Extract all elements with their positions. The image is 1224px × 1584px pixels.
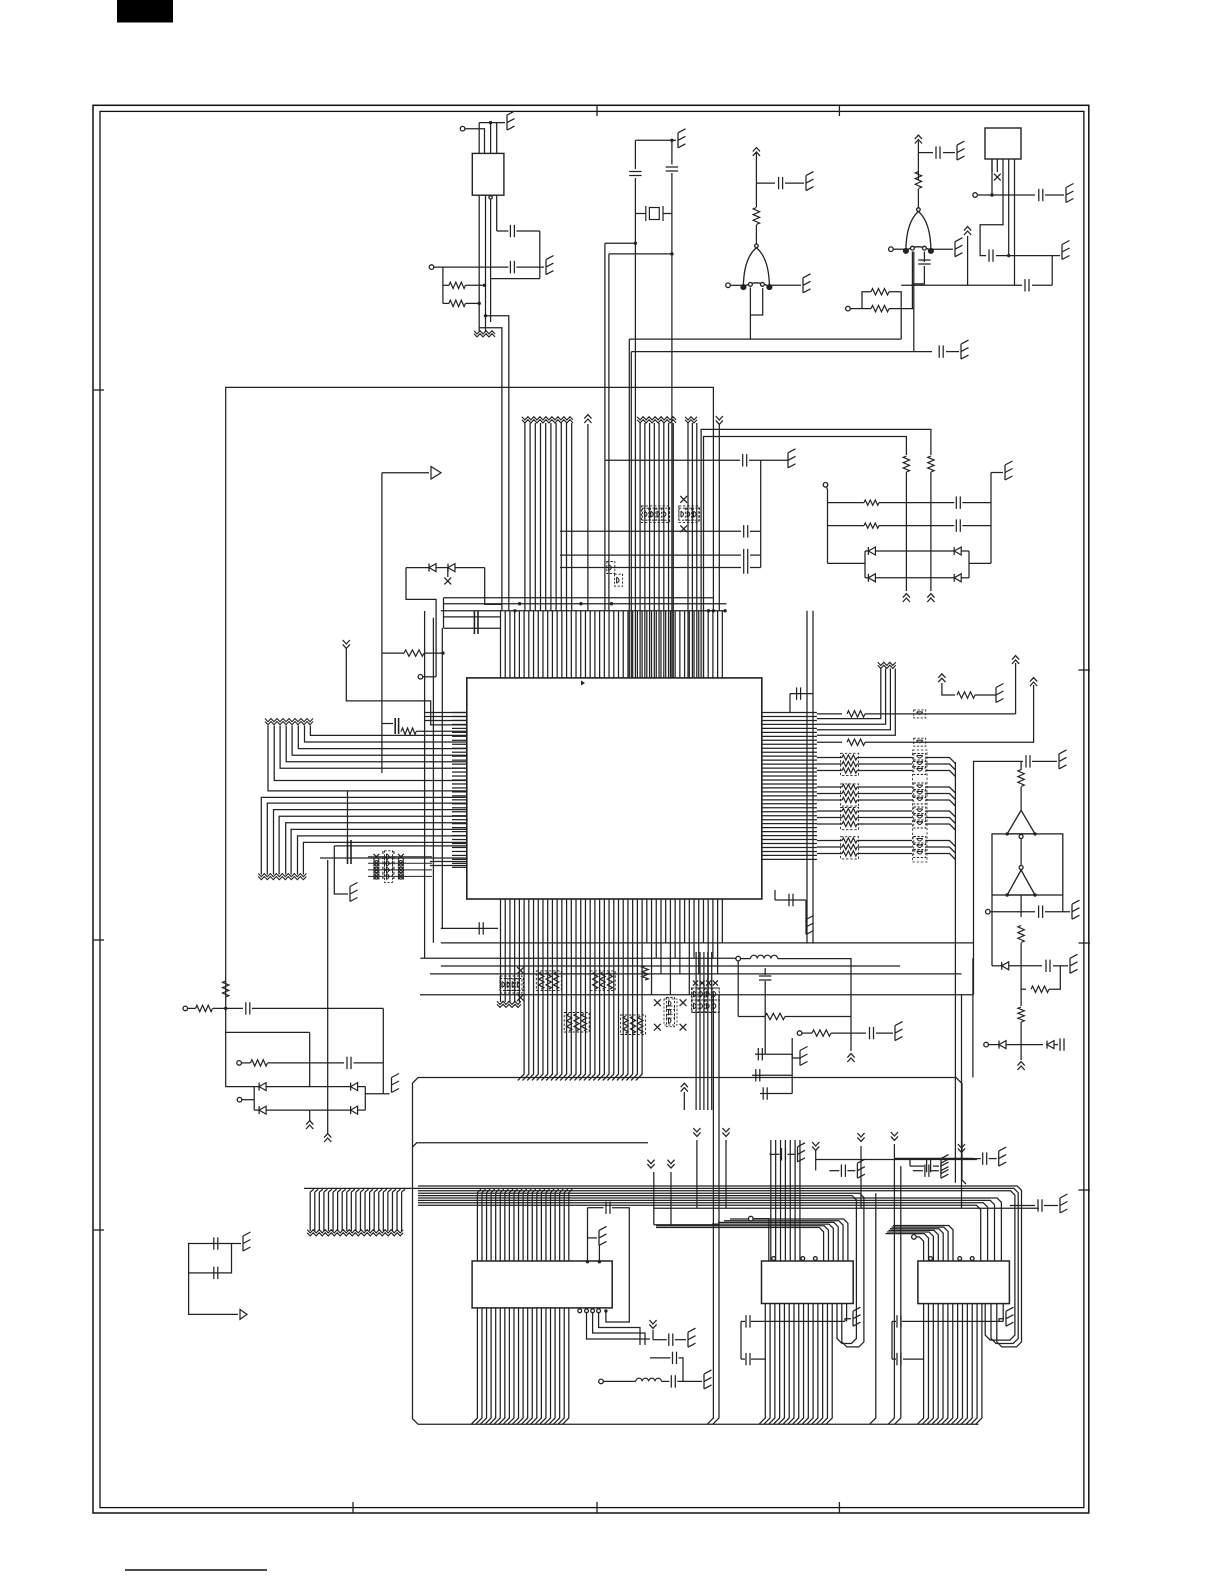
frame tick right (1079, 942, 1091, 944)
wire (226, 998, 310, 1033)
wire (857, 846, 912, 848)
U2 top pin (477, 1189, 481, 1261)
capacitor (841, 1165, 845, 1177)
capacitor (925, 1165, 929, 1177)
bead array box (679, 506, 699, 523)
wire (765, 1038, 792, 1054)
wire (718, 424, 720, 611)
U1 left pin 3 (452, 719, 467, 721)
wire (931, 248, 953, 250)
capacitor (1039, 189, 1043, 201)
bead column box (913, 750, 928, 862)
wire (266, 1086, 351, 1088)
U2 top pin (551, 1189, 555, 1261)
U2 top pin (528, 1189, 532, 1261)
U3 top pin wire (730, 1219, 848, 1261)
bus line 2 (691, 423, 693, 678)
X mark (398, 854, 404, 860)
terminal (912, 1235, 917, 1240)
U1 right pin 25 (762, 807, 817, 809)
wire (828, 562, 866, 564)
U1 top pin 18 (580, 611, 582, 678)
wire (672, 139, 676, 141)
wire (857, 799, 912, 801)
resistor (642, 966, 648, 980)
U1 top pin 25 (613, 611, 615, 678)
U1 top pin 17 (575, 611, 577, 678)
wire (930, 472, 932, 591)
supply arrow down (667, 1160, 674, 1168)
bus line 5 (545, 423, 547, 611)
U1 top pin 26 (618, 611, 620, 678)
supply arrow down (812, 1142, 819, 1150)
U2 top pin (496, 1189, 500, 1261)
resistor (812, 1030, 831, 1036)
wire (961, 550, 969, 552)
wire (763, 1074, 792, 1076)
bus wire (860, 1146, 862, 1208)
U3 bottom pin (821, 1304, 827, 1425)
U1 bottom pin 45 (707, 899, 709, 995)
ground (961, 340, 969, 359)
U1 left pin 39 (452, 862, 467, 864)
U2 bottom pin (521, 1308, 527, 1424)
no-connect X (517, 967, 524, 974)
U3 top pin wire (718, 1222, 838, 1261)
U1 right pin 23 (762, 799, 817, 801)
X mark (374, 854, 380, 860)
wire from gate bus (630, 352, 632, 678)
supply arrow down (857, 1133, 864, 1141)
bus line (699, 952, 701, 1110)
wire (268, 1062, 344, 1064)
wire (828, 502, 865, 504)
wire (241, 1062, 250, 1064)
wire (817, 817, 842, 819)
bus wire (444, 627, 501, 629)
U1 bottom pin 26 (612, 899, 618, 1080)
U1 top pin 13 (556, 611, 558, 678)
wire (755, 1053, 765, 1055)
wire (1032, 284, 1052, 286)
capacitor (797, 687, 801, 699)
bus continuation marks (878, 662, 896, 668)
array resistor (546, 972, 551, 989)
wire (606, 1208, 629, 1322)
wire (817, 669, 895, 736)
wire (788, 1153, 796, 1155)
wire (817, 846, 842, 848)
no-connect X (693, 980, 698, 985)
capacitor (744, 549, 748, 561)
wire (817, 741, 842, 743)
bus line (401, 1192, 403, 1231)
junction (489, 121, 492, 124)
wire (598, 1245, 600, 1261)
capacitor (789, 894, 793, 906)
U4 top pin wire (886, 1234, 929, 1261)
U1 left pin 4 (452, 723, 467, 725)
supply arrow down (958, 1144, 965, 1152)
wire (817, 823, 842, 825)
U1 top pin 7 (528, 611, 530, 678)
bead array box (500, 976, 522, 993)
wire (358, 1109, 366, 1111)
wire (496, 123, 498, 154)
terminal J1 (460, 126, 465, 131)
U1 left pin wire (279, 816, 467, 874)
terminal (237, 1097, 242, 1102)
wire (980, 172, 1003, 256)
U2 top pin (532, 1189, 536, 1261)
wire (333, 1189, 337, 1192)
wire (1020, 761, 1022, 770)
resistor (765, 1013, 785, 1019)
U1 top pin 16 (570, 611, 572, 678)
wire (991, 912, 993, 966)
bus line (364, 1192, 366, 1231)
supply arrow down (716, 416, 723, 424)
U1 right pin 16 (762, 771, 817, 773)
wire (785, 182, 804, 184)
capacitor (214, 1267, 218, 1279)
wire (671, 173, 673, 678)
wire (1015, 663, 1017, 714)
no-connect X (654, 1024, 661, 1031)
no-connect X (680, 999, 687, 1006)
wire (751, 1358, 765, 1360)
bus line (355, 1192, 357, 1231)
wire (351, 1189, 355, 1192)
wire (368, 869, 432, 871)
U2 top pin (546, 1189, 550, 1261)
U1 bottom pin 38 (674, 899, 676, 958)
ferrite bead (385, 864, 393, 876)
X mark (374, 874, 379, 879)
resistor (871, 305, 889, 311)
wire (792, 1054, 800, 1058)
U2 bottom pin (508, 1308, 514, 1424)
U1 bottom pin 3 (509, 899, 511, 1002)
resistor (928, 456, 934, 472)
wire (917, 189, 919, 209)
bead array box (641, 506, 669, 523)
ground (957, 141, 965, 160)
U1 top pin 21 (594, 611, 596, 678)
U2 bottom pin (499, 1308, 505, 1424)
wire (587, 1208, 589, 1262)
ferrite bead (385, 870, 393, 882)
U1 left pin stub (430, 861, 467, 863)
wire (587, 1313, 651, 1339)
wire (406, 567, 429, 569)
resistor (404, 650, 424, 656)
wire (805, 900, 807, 922)
wire (817, 810, 842, 812)
U3 top pin (784, 1140, 786, 1261)
junction (1033, 893, 1036, 896)
wire (876, 1032, 893, 1034)
filter T1 (472, 153, 504, 195)
X mark (398, 874, 403, 879)
ferrite bead (711, 988, 719, 1000)
U1 right pin 35 (762, 846, 817, 848)
wire (354, 1062, 384, 1064)
wire (879, 525, 954, 527)
U1 top pin 39 (679, 611, 681, 678)
U1 left pin 21 (452, 791, 467, 793)
supply arrow down (693, 1128, 700, 1136)
U1 left pin 3 (425, 720, 467, 722)
ground (798, 1143, 806, 1162)
resistor (903, 456, 909, 472)
U4 bottom pin (961, 1304, 967, 1425)
bus wire (420, 957, 736, 959)
U1 bottom pin 39 (679, 899, 681, 974)
wire (910, 1165, 924, 1167)
buffer symbol (431, 467, 441, 480)
ferrite bead (914, 850, 926, 858)
wire (755, 183, 757, 207)
bus line (695, 952, 697, 1110)
U1 bottom pin 48 (721, 899, 723, 943)
ferrite bead (914, 814, 926, 822)
wire (817, 793, 842, 795)
array resistor (842, 797, 857, 802)
U1 bottom pin 41 (688, 899, 690, 995)
wire (865, 577, 868, 579)
wire (242, 1099, 254, 1101)
wire (817, 669, 886, 725)
U1 bottom pin 4 (514, 899, 516, 1002)
no-connect X (713, 980, 718, 985)
U1 left pin 40 (452, 866, 467, 868)
U1 left pin 29 (452, 823, 467, 825)
capacitor (746, 1315, 750, 1327)
X mark (374, 861, 379, 866)
VCC arrow (938, 674, 945, 682)
terminal (237, 1061, 242, 1066)
U1 right pin 9 (762, 743, 817, 745)
U4 bottom pin (932, 1304, 938, 1425)
U1 left pin 34 (452, 843, 467, 845)
bus line 3 (696, 423, 698, 678)
wire (926, 794, 956, 800)
U1 left pin 37 (452, 854, 467, 856)
ferrite bead (914, 843, 926, 851)
wire (817, 799, 842, 801)
U4 bottom pin (966, 1304, 972, 1425)
U4 bottom pin (937, 1304, 943, 1425)
array resistor (607, 972, 612, 989)
U1 bottom pin 1 (500, 899, 502, 1002)
terminal (1019, 866, 1023, 870)
bus line (387, 1192, 389, 1231)
junction (513, 609, 516, 612)
ferrite bead (679, 508, 687, 520)
ferrite bead (655, 508, 663, 520)
U3 top pin wire (712, 1224, 833, 1261)
sub-board boundary wire (226, 387, 714, 997)
wire (675, 1339, 686, 1341)
wire (737, 961, 739, 1017)
bus wire (816, 1159, 977, 1161)
capacitor (606, 1202, 610, 1214)
capacitor (759, 976, 771, 980)
terminal (984, 1042, 989, 1047)
wire (991, 159, 993, 172)
U1 bottom pin 2 (504, 899, 506, 1002)
U1 left pin wire (280, 726, 467, 769)
junction (484, 314, 487, 317)
U2 pin marker (578, 1309, 582, 1313)
bus wire (441, 965, 900, 967)
U3 top pin (775, 1140, 777, 1261)
U1 top pin 43 (698, 611, 700, 678)
U2 pin marker (597, 1309, 601, 1313)
bus wire (961, 1156, 963, 1208)
wire (479, 122, 505, 124)
wire (857, 786, 912, 788)
U1 bottom pin 10 (537, 899, 543, 1080)
no-connect X (444, 578, 451, 585)
bus continuation marks (685, 417, 697, 423)
bus line (711, 952, 713, 1110)
U1 right pin 12 (762, 755, 817, 757)
ferrite bead (692, 1000, 700, 1012)
wire (892, 1358, 896, 1360)
wire (683, 1092, 685, 1110)
outer frame (93, 105, 1089, 1513)
ferrite bead (914, 767, 926, 775)
U1 left pin wire (320, 857, 467, 859)
wire (442, 267, 444, 303)
U4 bottom pin stub (1002, 1304, 1004, 1322)
U1 right pin 22 (762, 795, 817, 797)
wire (889, 308, 914, 310)
wire (815, 1150, 817, 1170)
resistor (449, 300, 466, 306)
U1 bottom pin 11 (541, 899, 547, 1080)
U1 left pin stub (430, 865, 467, 867)
wire (926, 818, 956, 824)
U3 bottom pin stub (846, 1304, 848, 1322)
IC U3 body (762, 1261, 854, 1304)
terminal (986, 909, 991, 914)
capacitor (1025, 279, 1029, 291)
ferrite bead (914, 710, 926, 718)
U3 top pin (799, 1140, 801, 1261)
U1 left pin wire (298, 726, 467, 749)
bus line (888, 1158, 894, 1424)
array resistor (574, 1014, 579, 1031)
VCC arrow (915, 135, 922, 143)
U1 top pin 8 (533, 611, 535, 678)
wire (1006, 1044, 1043, 1046)
U2 pin marker (585, 1309, 589, 1313)
supply arrow down (647, 1160, 654, 1168)
ground (996, 684, 1004, 703)
capacitor (246, 1002, 250, 1014)
U1 top pin 42 (693, 611, 695, 678)
array resistor (567, 1014, 572, 1031)
U2 bottom pin (476, 1308, 482, 1424)
gate G1 (741, 244, 772, 290)
wire (1002, 159, 1004, 172)
U1 top pin 33 (651, 611, 653, 678)
bus line 4 (540, 423, 542, 611)
wire (309, 1110, 311, 1121)
U1 bottom pin 32 (646, 899, 648, 943)
capacitor (779, 177, 783, 189)
array resistor (842, 761, 857, 766)
wire (962, 502, 991, 504)
wire (1044, 1205, 1058, 1207)
junction (670, 252, 673, 255)
U3 bottom pin (807, 1304, 813, 1425)
wire (875, 577, 954, 579)
bus wire (653, 1172, 655, 1225)
U1 bottom pin 29 (626, 899, 632, 1080)
ferrite bead (711, 1000, 719, 1012)
U1 bottom pin 17 (570, 899, 576, 1080)
U1 left pin 2 (425, 716, 467, 718)
U1 left pin 35 (452, 846, 467, 848)
U1 bottom pin 44 (702, 899, 704, 943)
wire (857, 810, 912, 812)
capacitor (671, 1375, 675, 1387)
X mark (398, 867, 403, 872)
comparator B (1007, 870, 1035, 895)
U1 bottom pin 28 (622, 899, 628, 1080)
U1 top pin 12 (551, 611, 553, 678)
supply arrow down (891, 1132, 898, 1140)
U1 top pin 30 (636, 611, 638, 678)
U1 left pin wire (261, 797, 467, 874)
capacitor (1046, 960, 1050, 972)
wire (926, 764, 956, 770)
bead array box (692, 988, 719, 1013)
wire (443, 598, 445, 628)
ground (941, 1155, 949, 1174)
U1 left pin 15 (452, 767, 467, 769)
wire (926, 824, 956, 830)
wire (663, 213, 672, 215)
diode (351, 1083, 358, 1091)
wire (416, 730, 467, 732)
wire (753, 1219, 769, 1261)
U1 bottom pin 43 (698, 899, 700, 974)
bus wire (605, 459, 740, 461)
U1 left pin 2 (452, 715, 467, 717)
wire (1014, 159, 1016, 172)
bus wire (654, 1207, 1039, 1209)
diode (868, 574, 875, 582)
U1 top pin 36 (665, 611, 667, 678)
ferrite bead (667, 1006, 675, 1018)
U1 bottom pin 46 (712, 899, 714, 958)
array resistor (842, 768, 857, 773)
junction (723, 609, 726, 612)
U2 top pin (560, 1189, 564, 1261)
U1 left pin 24 (452, 803, 467, 805)
wire (677, 1380, 702, 1382)
ferrite bead (914, 738, 926, 746)
U3 bottom pin (788, 1304, 794, 1425)
capacitor (1060, 1038, 1064, 1050)
wire (857, 823, 912, 825)
wire (893, 1144, 895, 1158)
